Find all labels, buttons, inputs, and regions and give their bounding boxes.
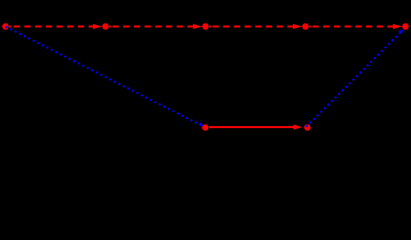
node D — [302, 23, 309, 30]
wire: blue dotted edge G->E — [306, 33, 400, 127]
wire: red arrowhead at G — [294, 125, 303, 130]
wire: red arrowhead at D — [293, 24, 302, 29]
wire: blue arrowhead at E — [399, 29, 405, 35]
wire: red dashed edge B->C — [113, 26, 193, 28]
node A — [2, 23, 8, 30]
wire: red arrowhead at E — [393, 24, 402, 29]
wire: red stub after A — [9, 26, 11, 28]
wire: red dashed edge A->B — [14, 26, 93, 28]
wire: blue arrowhead at F — [199, 122, 204, 126]
wire: red stub after D — [309, 26, 311, 28]
wire: red dashed edge C->D — [213, 26, 293, 28]
wire: red arrowhead at C — [193, 24, 202, 29]
node F — [202, 124, 209, 131]
node E — [402, 23, 409, 30]
wire: blue dotted edge A->F — [5, 27, 199, 125]
node G — [304, 124, 311, 131]
node C — [202, 23, 209, 30]
wire: red stub after C — [209, 26, 211, 28]
wire: red dashed edge D->E — [313, 26, 393, 28]
wire: red stub after B — [109, 26, 111, 28]
wire: red solid edge F->G — [209, 126, 294, 128]
wire: red arrowhead at B — [93, 24, 102, 29]
node B — [102, 23, 109, 30]
